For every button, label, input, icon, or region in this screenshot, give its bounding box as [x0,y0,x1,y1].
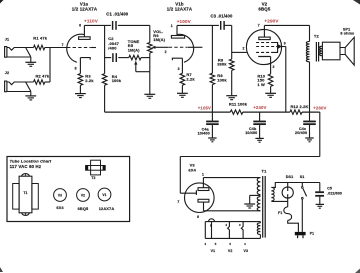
svg-text:DS1: DS1 [286,175,294,179]
wire C3 to grid node [224,24,232,26]
svg-text:5: 5 [215,242,217,246]
heater bus right end [259,222,261,223]
svg-text:3: 3 [239,223,241,227]
svg-text:2: 2 [165,50,167,54]
wire junction R1-R2 [49,48,51,83]
svg-text:V2: V2 [81,193,85,197]
heater bus top [205,221,260,223]
wire plate V1b to C3 [177,24,219,26]
plate lead V1a [83,25,85,36]
wire grid node to V2 [232,51,248,53]
wire R10 to ground [270,86,272,93]
resistor R3 2.2k [78,74,83,86]
svg-text:5: 5 [210,224,212,228]
tube V1b envelope [177,34,194,62]
ground of R10 [265,92,276,94]
T1 heater winding [257,223,260,235]
svg-text:2.2k: 2.2k [186,76,195,81]
capacitor C5 [319,183,321,192]
capacitor C4c [309,112,311,121]
svg-text:V1: V1 [102,193,106,197]
svg-text:P1: P1 [310,232,314,236]
T1 HV secondary top [257,178,260,195]
heater of V1 [211,222,213,239]
svg-text:1: 1 [202,172,204,176]
svg-text:+105V: +105V [198,105,211,110]
plate V2 [259,37,270,40]
wire R3 to ground [79,85,81,93]
svg-text:R2 47k: R2 47k [36,73,50,78]
resistor R10 150 1W [268,74,273,86]
capacitor C2 [112,53,114,62]
input jack J1 [5,47,7,58]
svg-text:3: 3 [272,65,274,69]
svg-text:8: 8 [75,66,77,70]
wire R9 to ground [231,70,233,95]
svg-text:7: 7 [62,43,64,47]
svg-text:100k: 100k [217,78,227,83]
grid V1a (dashed) [67,47,91,49]
ground of J2 [25,95,36,97]
svg-text:6: 6 [79,23,81,27]
wire plate V2 to T2 [264,24,309,26]
chart T2 symbol [91,160,101,175]
T1 primary winding [271,187,274,201]
tube V2 envelope [246,29,281,64]
svg-text:T1: T1 [23,191,27,195]
input jack J2 [5,81,7,92]
ground of R9 [226,95,237,97]
svg-text:6X4: 6X4 [56,205,64,210]
svg-text:J1: J1 [5,37,10,41]
plate V1a [79,37,91,40]
svg-text:C1 .01/400: C1 .01/400 [106,12,129,17]
svg-text:V3: V3 [244,249,249,253]
wiper of R5 [135,63,137,71]
svg-text:+290V: +290V [264,18,279,23]
screen lead to rail [276,46,286,48]
speaker SP1 [322,42,340,60]
svg-text:7: 7 [258,24,260,28]
ground of R6 [144,93,155,95]
T1 HV secondary bottom [257,197,260,211]
grid V1b (dashed) [169,46,188,48]
wire C2 to R5 [118,57,129,59]
svg-text:6: 6 [197,215,199,219]
wire R7 to ground [181,85,183,93]
chart V1 socket [98,188,111,201]
svg-text:9: 9 [284,42,286,46]
capacitor C1 [112,21,114,30]
resistor R4 100k [102,74,107,86]
svg-text:100k: 100k [112,78,122,83]
wire T1 primary top [271,183,319,188]
resistor R7 2.2k [180,73,185,85]
wire T2 primary to +260V rail [309,62,311,112]
resistor R2 47k [34,80,45,85]
svg-text:3: 3 [178,67,180,71]
svg-text:C3 .01/400: C3 .01/400 [211,13,234,18]
ground of R7 [177,92,188,94]
svg-text:20/400: 20/400 [295,131,307,135]
svg-text:T2: T2 [314,34,320,39]
svg-text:/400: /400 [108,46,117,51]
heater bus bottom [205,237,260,239]
svg-text:6BQ5: 6BQ5 [78,206,89,211]
ground of C5 [316,203,324,205]
svg-text:1: 1 [171,24,173,28]
ground of R3 [75,93,86,95]
svg-text:10/400: 10/400 [198,132,210,136]
resistor R1 47k [34,45,45,50]
svg-text:.022/600: .022/600 [327,191,342,195]
heater of V2 [228,222,230,239]
svg-text:V3: V3 [58,193,62,197]
ground of C4c [305,137,313,139]
screen bracket V2 [274,43,278,53]
capacitor C4b [259,112,261,121]
svg-text:R11 100k: R11 100k [229,102,248,107]
svg-text:F1: F1 [278,211,282,215]
ground of center tap [244,203,255,205]
svg-text:R12 2.2K: R12 2.2K [290,104,308,109]
svg-text:12AX7A: 12AX7A [99,206,115,211]
resistor R9 330k [229,59,234,70]
svg-text:4: 4 [244,242,246,246]
T1 center tap [250,194,261,196]
transformer T2 primary [306,42,309,62]
plug P1 [295,232,306,235]
tube V1a envelope [67,34,84,62]
ground of J1 [25,61,36,63]
ground of C4a [208,137,216,139]
potentiometer R6 volume [149,25,151,42]
wire plate V1a to C1 [84,24,111,26]
plate lead V1b [176,25,178,35]
plate 1 of V3 [198,188,209,191]
svg-text:7: 7 [177,200,179,204]
resistor R11 100k [230,110,243,114]
ground of C4b [255,137,263,139]
svg-text:4: 4 [204,242,206,246]
switch S1 [301,183,303,187]
svg-text:2: 2 [242,46,244,50]
transformer T1 core [262,176,264,238]
svg-text:+100V: +100V [177,19,192,24]
cathode V2 [258,56,270,58]
svg-text:S1: S1 [300,175,305,179]
svg-text:J2: J2 [5,71,10,75]
svg-text:8 ohms: 8 ohms [340,32,354,36]
wire R4 to B+ rail [104,85,106,112]
svg-text:T2: T2 [91,176,95,180]
svg-text:V2: V2 [228,249,233,253]
wire C1 to volume pot [118,24,150,26]
svg-text:4: 4 [225,223,227,227]
wire fuse to plug [288,220,299,232]
svg-text:6BQ5: 6BQ5 [258,7,270,12]
cathode V3 [180,192,196,194]
capacitor C3 [220,21,222,30]
wire +260V to rectifier cathode [319,112,321,156]
svg-text:T1: T1 [262,169,268,174]
grid 3 V2 (dashed) [256,42,274,44]
svg-text:R1 47k: R1 47k [33,36,47,41]
svg-text:117 VAC 60 Hz: 117 VAC 60 Hz [10,164,42,169]
chart V3 socket [54,189,67,202]
wire plate node to C2 [105,57,112,59]
wiper of R6 [151,46,155,49]
svg-text:+260V: +260V [313,105,326,110]
svg-text:1M(A): 1M(A) [128,47,140,52]
tube location chart box [7,157,130,222]
transformer T2 core [315,42,317,62]
wire T1 primary bottom [271,200,287,202]
pilot lamp DS1 [287,183,289,192]
svg-text:V1: V1 [211,249,216,253]
grid 1 V2 (dashed) [256,51,274,53]
capacitor C4a [211,112,213,121]
svg-text:6X4: 6X4 [188,167,196,172]
fuse F1 [287,201,289,206]
wire plate1 V3 to T1 [203,177,260,179]
transformer T2 secondary [320,46,323,56]
grid 2 V2 (dashed) [256,46,276,48]
resistor R8 100k [210,73,215,84]
wire R1 to grid junction [45,47,67,49]
tube V3 envelope [185,183,215,213]
potentiometer R5 tone [129,55,141,60]
heater bus left end [204,222,206,239]
wire R8 top [211,25,213,73]
cathode V1a [80,58,90,60]
svg-text:1 W: 1 W [257,82,265,87]
plate V1b [171,36,184,39]
wire R2 to junction [45,81,50,83]
svg-text:1/2 12AX7A: 1/2 12AX7A [167,7,193,12]
svg-text:+110V: +110V [84,18,99,23]
svg-text:330k: 330k [217,62,227,67]
resistor R12 2.2K [290,110,302,114]
plate 2 of V3 [198,199,209,202]
chart T1 symbol [19,176,32,213]
svg-text:5: 5 [229,242,231,246]
wire R8 to B+ rail [211,85,213,113]
svg-text:10/400: 10/400 [245,131,257,135]
screen exit wedge V2 [278,44,282,49]
wire plate2 V3 to T1 [204,210,261,212]
B+ rail [105,111,231,113]
cathode V1b [172,58,182,60]
svg-text:1/2 12AX7A: 1/2 12AX7A [72,7,98,12]
svg-text:1M(A): 1M(A) [153,37,165,42]
heater of V3 [241,222,243,239]
svg-text:+240V: +240V [253,105,266,110]
plate lead V2 [263,25,265,37]
wire plate node down [104,25,106,73]
svg-text:C5: C5 [327,187,332,191]
chart V2 socket [77,189,90,202]
svg-text:2.2k: 2.2k [85,78,94,83]
